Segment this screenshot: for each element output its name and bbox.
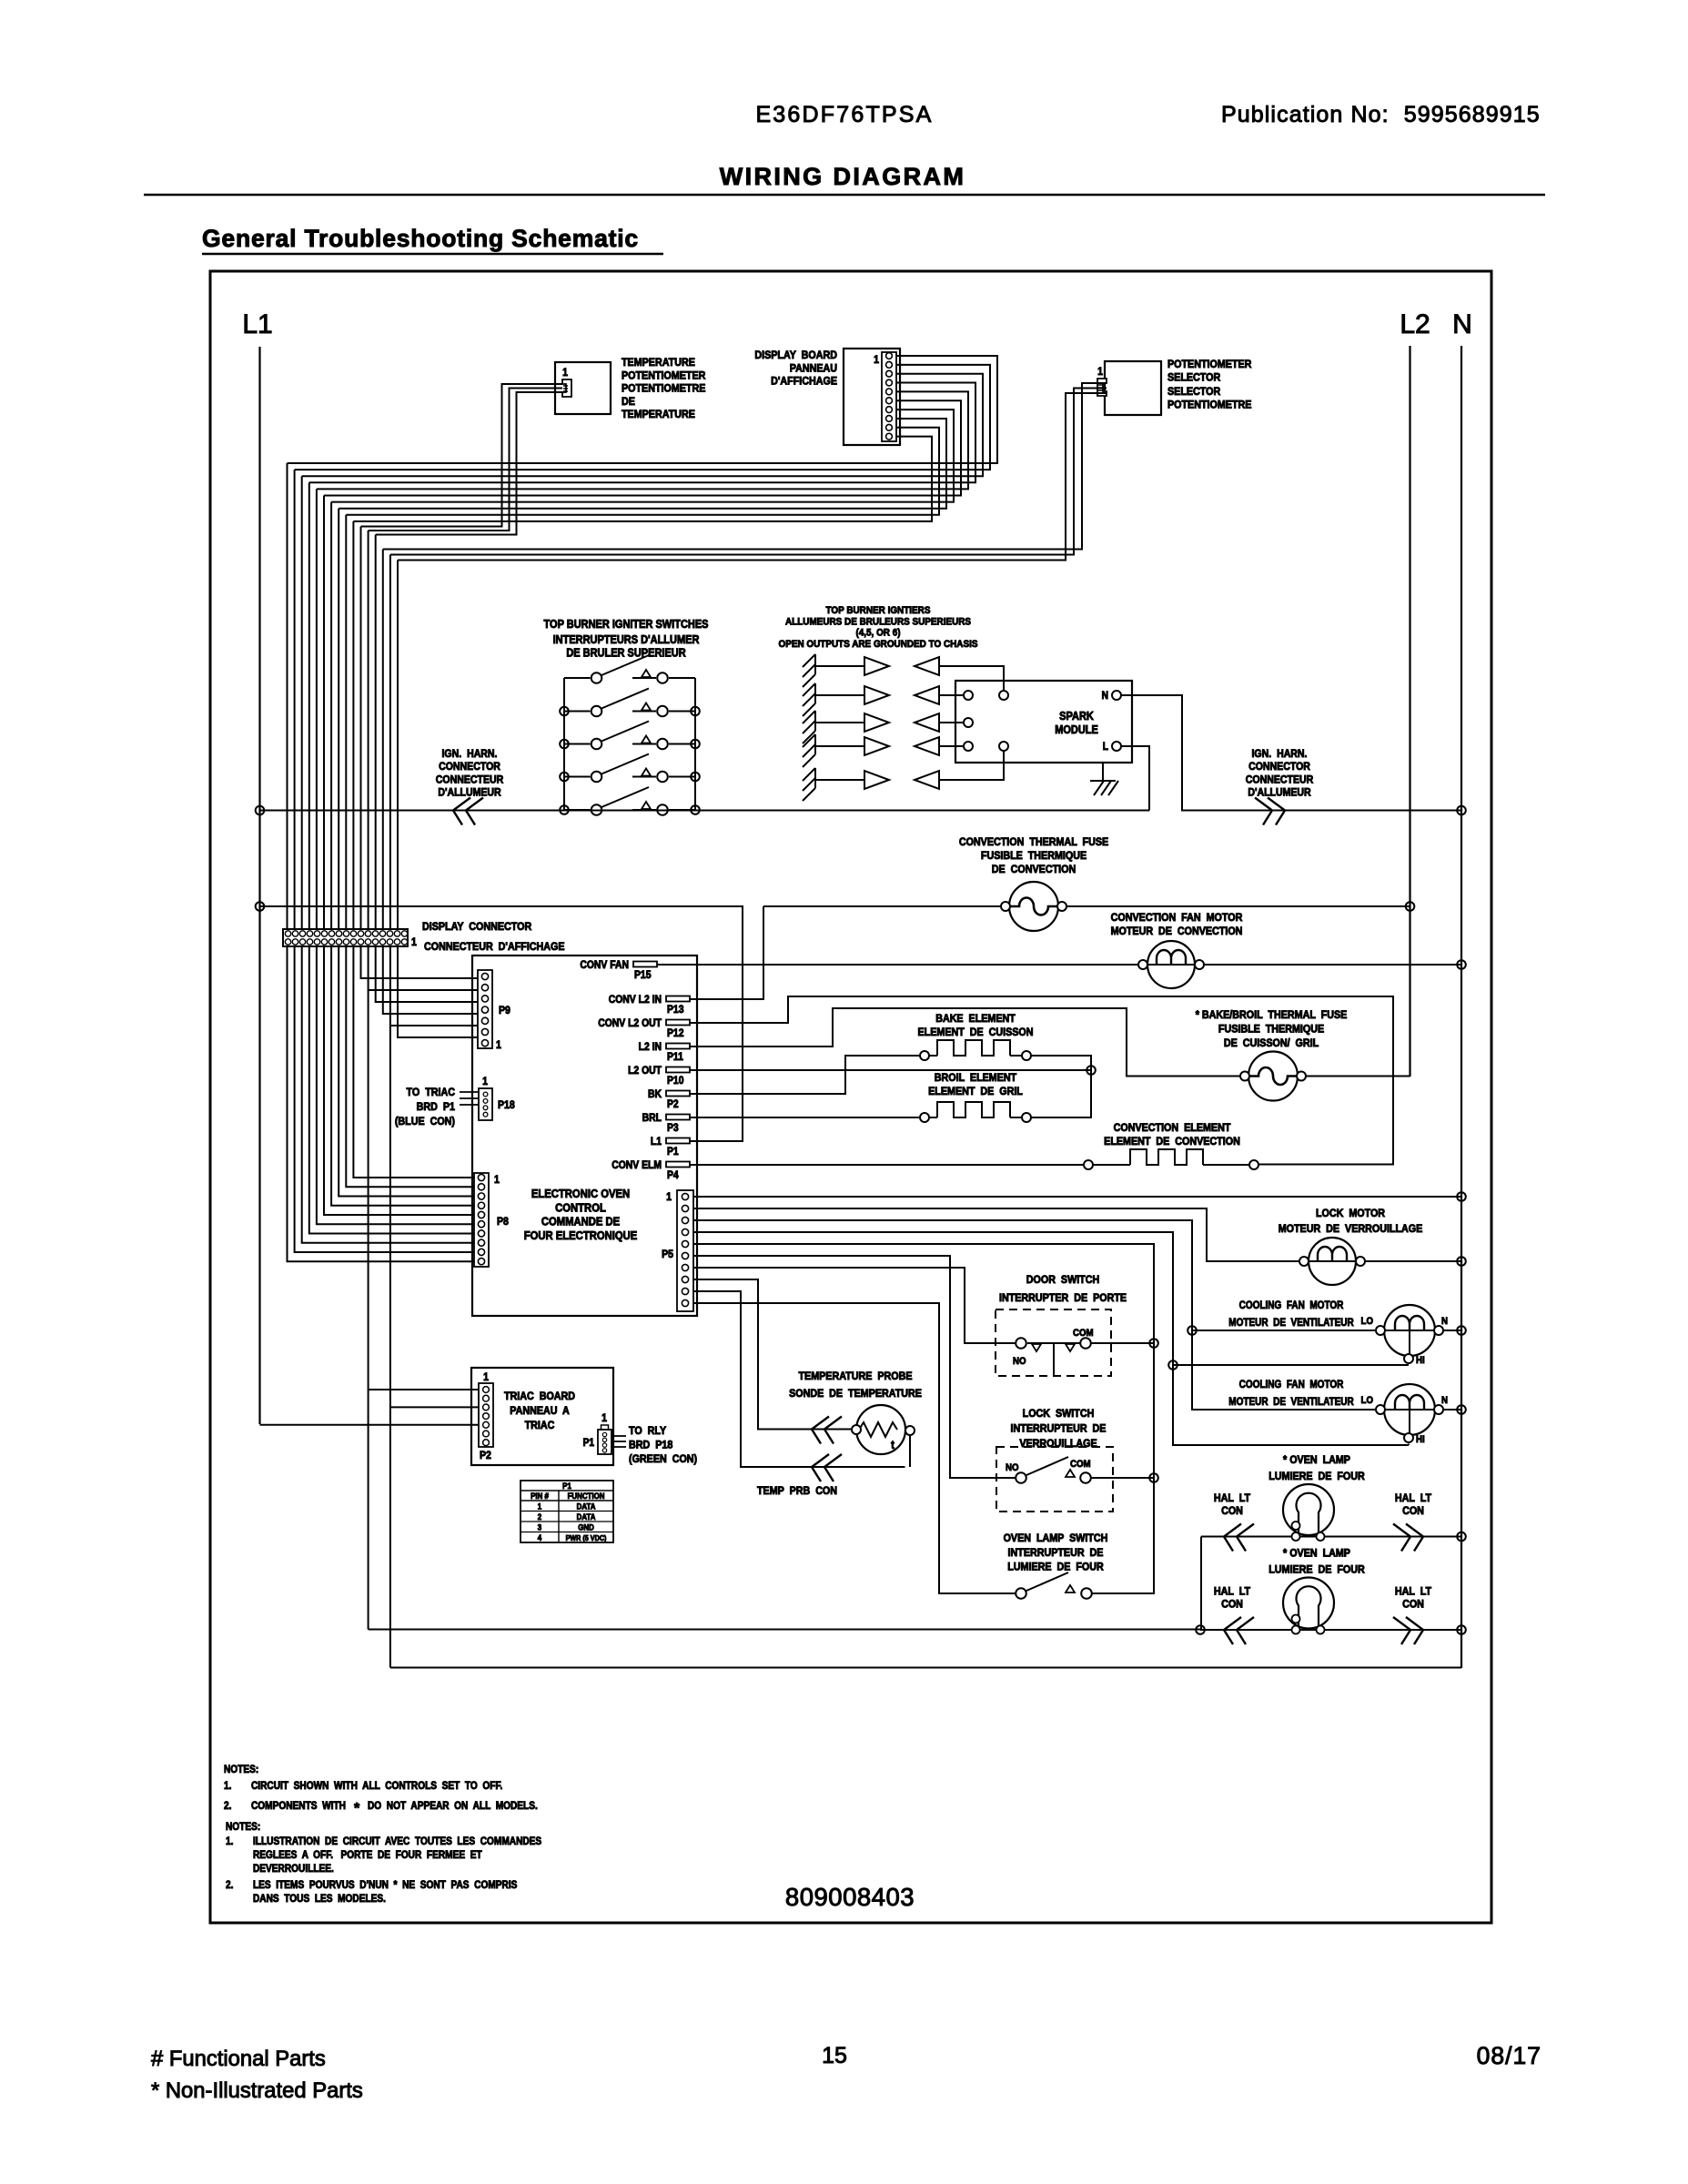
svg-text:* BAKE/BROIL THERMAL FUSE: * BAKE/BROIL THERMAL FUSE	[1196, 1009, 1348, 1021]
svg-text:FUNCTION: FUNCTION	[568, 1491, 605, 1501]
wire L1 to triac P2 pin5	[260, 1424, 480, 1426]
wire display harness line 5	[317, 391, 968, 489]
connector P9 pin 5	[481, 1017, 488, 1024]
svg-text:(4,5, OR 6): (4,5, OR 6)	[855, 627, 901, 639]
svg-text:P3: P3	[667, 1122, 679, 1134]
svg-text:1: 1	[411, 936, 417, 948]
svg-text:GND: GND	[578, 1522, 594, 1532]
top burner igniter 1	[803, 654, 815, 687]
wire N vertical	[1461, 346, 1462, 1668]
svg-text:DEVERROUILLEE.: DEVERROUILLEE.	[253, 1863, 334, 1875]
wire P3 BRL to broil element	[693, 1117, 919, 1118]
svg-text:t: t	[891, 1438, 895, 1451]
wire display harness line 6	[324, 400, 961, 495]
junction oven lamp 2 at neutral	[1457, 1625, 1466, 1634]
svg-text:2.: 2.	[226, 1879, 233, 1891]
svg-text:P9: P9	[499, 1005, 510, 1016]
svg-text:NO: NO	[1006, 1463, 1019, 1474]
svg-text:NOTES:: NOTES:	[224, 1764, 258, 1775]
svg-text:* Non-Illustrated Parts: * Non-Illustrated Parts	[151, 2078, 363, 2103]
display board pin 2	[886, 361, 893, 368]
display connector pin column 13	[372, 931, 378, 936]
EOC pin P15 CONV FAN	[633, 962, 657, 967]
svg-text:CONV L2 IN: CONV L2 IN	[609, 994, 662, 1006]
svg-text:ELECTRONIC OVEN: ELECTRONIC OVEN	[531, 1187, 630, 1200]
connector P5 pin 6	[682, 1252, 688, 1259]
triac P1 pin table	[521, 1481, 613, 1542]
svg-text:REGLEES A OFF. PORTE DE: REGLEES A OFF. PORTE DE FOUR FERMEE ET	[253, 1849, 482, 1861]
svg-text:CONNECTOR: CONNECTOR	[439, 762, 500, 773]
svg-text:ALLUMEURS DE BRULEURS SUPERIEU: ALLUMEURS DE BRULEURS SUPERIEURS	[785, 616, 971, 628]
connector P9 pin 6	[481, 1028, 488, 1035]
selector potentiometer pin 1 connector stub	[1097, 379, 1107, 396]
cooling fan motor 2	[1384, 1384, 1435, 1435]
connector P9 pin 3	[481, 996, 488, 1002]
wires to P18	[460, 1091, 479, 1093]
top burner igniter 3	[803, 711, 815, 743]
connector arrows oven lamp 1	[1224, 1524, 1254, 1552]
wire door switch COM out	[1092, 1342, 1155, 1344]
wire P5-6 to lock switch NO	[693, 1256, 1016, 1478]
junction convection fan motor at neutral	[1457, 960, 1466, 969]
junction lock switch COM	[1149, 1473, 1158, 1482]
display connector pin column 6	[321, 931, 327, 936]
electronic oven control box	[472, 955, 697, 1316]
display connector pin column 5	[314, 931, 319, 936]
connector P8 pin 4	[478, 1202, 484, 1208]
wire display harness line 3	[302, 374, 983, 477]
junction igniter harness at L1	[256, 806, 265, 815]
EOC pin P4 CONV ELM	[666, 1162, 690, 1168]
EOC pin P13 CONV L2 IN	[666, 996, 690, 1002]
connector P8 pin 6	[478, 1221, 484, 1228]
svg-text:DANS TOUS LES MODELES.: DANS TOUS LES MODELES.	[253, 1893, 386, 1905]
svg-text:08/17: 08/17	[1477, 2042, 1541, 2069]
wire oven lamp 1 to lamp 2 tie	[1200, 1537, 1202, 1631]
bake element	[930, 1055, 938, 1057]
svg-text:WIRING DIAGRAM: WIRING DIAGRAM	[720, 163, 966, 190]
wire display harness line 8	[339, 419, 946, 509]
svg-text:MOTEUR DE VENTILATEUR: MOTEUR DE VENTILATEUR	[1228, 1317, 1353, 1329]
svg-text:DISPLAY CONNECTOR: DISPLAY CONNECTOR	[422, 921, 532, 933]
display board pin 3	[886, 370, 893, 377]
display connector pin column 8	[336, 931, 341, 936]
svg-text:2: 2	[538, 1512, 542, 1522]
connector P5 pin 3	[682, 1217, 688, 1223]
svg-text:TOP BURNER IGNTIERS: TOP BURNER IGNTIERS	[826, 604, 931, 616]
wire display harness line 1	[288, 356, 998, 463]
svg-text:LES ITEMS POURVUS D'NUN *: LES ITEMS POURVUS D'NUN * NE SONT PAS CO…	[253, 1879, 517, 1891]
svg-text:CONNECTOR: CONNECTOR	[1248, 762, 1310, 773]
svg-text:CON: CON	[1221, 1599, 1243, 1611]
svg-text:CONV L2 OUT: CONV L2 OUT	[598, 1017, 662, 1029]
svg-text:CON: CON	[1221, 1505, 1243, 1517]
svg-text:FUSIBLE THERMIQUE: FUSIBLE THERMIQUE	[1218, 1024, 1325, 1036]
spark module input pins	[964, 691, 973, 700]
wire bundle to connector P8	[288, 946, 475, 1261]
svg-text:1: 1	[874, 354, 879, 366]
connector P2 strip	[479, 1383, 493, 1447]
door switch contacts	[1027, 1342, 1080, 1344]
svg-text:TEMPERATURE PROBE: TEMPERATURE PROBE	[799, 1370, 913, 1382]
svg-text:LUMIERE DE FOUR: LUMIERE DE FOUR	[1269, 1564, 1365, 1576]
svg-text:MODULE: MODULE	[1055, 723, 1098, 736]
igniter switch 4	[564, 776, 591, 778]
connector P18 strip	[479, 1088, 492, 1120]
wire display harness line 9	[346, 428, 939, 515]
wire spark module L drop	[1122, 746, 1150, 811]
EOC pin P10 L2 OUT	[666, 1067, 690, 1073]
wire P5-3 to cooling fans LO	[693, 1220, 1376, 1410]
svg-text:P13: P13	[667, 1004, 683, 1016]
svg-text:* OVEN LAMP: * OVEN LAMP	[1283, 1454, 1350, 1466]
svg-text:INTERRUPTEURS D'ALLUMER: INTERRUPTEURS D'ALLUMER	[553, 633, 700, 646]
svg-text:L: L	[1103, 741, 1109, 753]
wire P5-5 to door/lock switch COM chain	[693, 1244, 1154, 1593]
wire P5-4 to cooling fans HI	[693, 1232, 1409, 1445]
svg-text:HI: HI	[1416, 1356, 1425, 1367]
wire P4 CONV ELM to convection element	[693, 1164, 1083, 1166]
svg-text:BROIL ELEMENT: BROIL ELEMENT	[935, 1072, 1016, 1084]
svg-text:1: 1	[494, 1174, 500, 1186]
connector P8 pin 8	[478, 1239, 484, 1246]
wire P10 L2 OUT	[693, 1069, 1091, 1071]
svg-text:BK: BK	[648, 1088, 662, 1100]
convection thermal fuse	[1009, 882, 1058, 931]
svg-text:CONV FAN: CONV FAN	[580, 959, 629, 971]
connector P8 strip	[474, 1173, 489, 1267]
wire triac P2 pin3 feed	[390, 1406, 479, 1408]
connector P5 pin 9	[682, 1288, 688, 1294]
svg-text:1: 1	[538, 1501, 542, 1512]
svg-text:4: 4	[538, 1533, 542, 1543]
svg-text:LUMIERE DE FOUR: LUMIERE DE FOUR	[1269, 1471, 1365, 1482]
display connector pin column 2	[292, 931, 298, 936]
svg-text:TO TRIAC: TO TRIAC	[407, 1087, 455, 1098]
display connector pin column 15	[387, 931, 392, 936]
junction door switch COM	[1149, 1339, 1158, 1348]
wire L1 vertical	[258, 347, 260, 1424]
EOC pin P1 L1	[666, 1138, 690, 1144]
connector P8 pin 1	[478, 1174, 484, 1180]
svg-text:1: 1	[562, 367, 568, 379]
svg-text:TRIAC: TRIAC	[525, 1420, 555, 1431]
svg-text:HAL LT: HAL LT	[1395, 1492, 1431, 1504]
wire oven lamp feed line	[369, 1629, 1200, 1631]
svg-text:CONVECTION FAN MOTOR: CONVECTION FAN MOTOR	[1111, 912, 1243, 924]
svg-text:2.: 2.	[224, 1800, 231, 1812]
connector P5 pin 8	[682, 1276, 688, 1282]
junction L1 feed	[256, 902, 265, 911]
svg-text:COMPONENTS WITH: COMPONENTS WITH	[251, 1800, 346, 1812]
igniter switch 2	[564, 711, 591, 713]
display connector pin column 17	[401, 931, 407, 936]
wire L2 through convection thermal fuse to P13	[693, 906, 763, 999]
connector P9 pin 2	[481, 985, 488, 991]
svg-text:COM: COM	[1073, 1329, 1094, 1340]
svg-text:P18: P18	[498, 1099, 515, 1111]
svg-text:COOLING FAN MOTOR: COOLING FAN MOTOR	[1239, 1379, 1344, 1390]
svg-text:NO: NO	[1013, 1357, 1026, 1368]
svg-text:IGN. HARN.: IGN. HARN.	[442, 748, 498, 760]
svg-text:(BLUE CON): (BLUE CON)	[395, 1116, 455, 1127]
door switch dashed box	[996, 1309, 1111, 1376]
potentiometer selector box	[1105, 361, 1161, 415]
svg-text:TOP BURNER IGNITER SWITCHES: TOP BURNER IGNITER SWITCHES	[544, 618, 709, 631]
svg-text:P1: P1	[562, 1481, 571, 1491]
wire P5-7 to door switch	[693, 1268, 1016, 1343]
svg-text:P4: P4	[667, 1169, 679, 1181]
connector P8 pin 10	[478, 1259, 484, 1265]
svg-text:MOTEUR DE VENTILATEUR: MOTEUR DE VENTILATEUR	[1228, 1396, 1353, 1408]
oven lamp 1	[1283, 1484, 1334, 1535]
wire P5-9 temperature probe return	[693, 1291, 905, 1467]
svg-text:ILLUSTRATION DE CIRCUIT AVE: ILLUSTRATION DE CIRCUIT AVEC TOUTES LES …	[253, 1835, 541, 1847]
svg-text:*: *	[354, 1801, 360, 1816]
svg-text:1.: 1.	[226, 1835, 233, 1847]
junction spark N at neutral rail	[1457, 806, 1466, 815]
igniter switch 3	[564, 743, 591, 745]
wire P2 BK to bake element	[693, 1056, 919, 1094]
svg-text:P2: P2	[480, 1450, 491, 1461]
display connector body	[283, 929, 408, 946]
svg-text:N: N	[1452, 309, 1472, 339]
svg-text:Publication No: 5995689915: Publication No: 5995689915	[1221, 102, 1541, 127]
svg-text:IGN. HARN.: IGN. HARN.	[1252, 748, 1308, 760]
connector arrow << on probe return	[812, 1454, 842, 1481]
oven lamp 1 line	[1201, 1536, 1461, 1538]
top burner igniter 5	[803, 768, 815, 801]
wire temperature potentiometer lead 1	[361, 384, 563, 527]
svg-text:POTENTIOMETER: POTENTIOMETER	[622, 370, 706, 382]
svg-text:POTENTIOMETRE: POTENTIOMETRE	[622, 383, 706, 395]
spark module pin N	[1112, 691, 1121, 700]
wire probe right terminal drop	[909, 1436, 911, 1468]
display connector pin column 12	[365, 931, 370, 936]
wire L1 to electronic oven control P1	[260, 906, 743, 1141]
svg-text:N: N	[1102, 690, 1108, 702]
svg-text:1: 1	[483, 1371, 489, 1383]
svg-text:P10: P10	[667, 1075, 683, 1087]
svg-text:* OVEN LAMP: * OVEN LAMP	[1283, 1548, 1350, 1560]
display connector pin column 7	[329, 931, 334, 936]
convection element	[1094, 1164, 1131, 1166]
svg-text:LUMIERE DE FOUR: LUMIERE DE FOUR	[1007, 1562, 1104, 1573]
display board pin 9	[886, 424, 893, 430]
junction cooling fan motor 2 at neutral	[1457, 1405, 1466, 1414]
display connector pin column 1	[285, 931, 290, 936]
connector P8 pin 7	[478, 1230, 484, 1237]
wire bundle to connector P9	[361, 946, 479, 978]
connector P5 pin 7	[682, 1264, 688, 1270]
svg-text:TEMPERATURE: TEMPERATURE	[622, 357, 695, 369]
svg-text:BRL: BRL	[642, 1112, 662, 1124]
connector P8 pin 5	[478, 1211, 484, 1218]
display board pin 1	[886, 353, 893, 359]
svg-text:DOOR SWITCH: DOOR SWITCH	[1026, 1274, 1099, 1286]
svg-text:L2: L2	[1400, 309, 1430, 339]
EOC pin P12 CONV L2 OUT	[666, 1020, 690, 1026]
svg-text:P12: P12	[667, 1027, 683, 1039]
svg-text:COM: COM	[1070, 1460, 1091, 1471]
svg-text:DE CONVECTION: DE CONVECTION	[992, 864, 1076, 875]
svg-text:HAL LT: HAL LT	[1395, 1586, 1431, 1598]
svg-text:P2: P2	[667, 1098, 679, 1110]
svg-text:CONVECTION ELEMENT: CONVECTION ELEMENT	[1114, 1122, 1231, 1134]
svg-text:P1: P1	[667, 1146, 679, 1158]
svg-text:PANNEAU A: PANNEAU A	[510, 1405, 570, 1417]
junction oven lamp feed	[1196, 1625, 1205, 1634]
svg-text:HAL LT: HAL LT	[1214, 1492, 1250, 1504]
wire selector potentiometer lead 2	[390, 389, 1107, 555]
spark module pin L	[1112, 742, 1121, 751]
wire cooling fan motor 2 to neutral	[1444, 1409, 1462, 1410]
connector P8 pin 9	[478, 1249, 484, 1255]
wire lock motor to neutral	[1366, 1260, 1462, 1262]
igniter switch left bus	[563, 678, 565, 810]
wire spark module N to neutral	[1122, 695, 1462, 811]
svg-text:COOLING FAN MOTOR: COOLING FAN MOTOR	[1239, 1299, 1344, 1311]
display board pin strip	[882, 352, 896, 441]
display board pin 6	[886, 398, 893, 404]
wire P12 to convection element right	[693, 996, 1393, 1165]
junction fan1 LO	[1188, 1326, 1197, 1335]
triac board box	[471, 1368, 613, 1465]
oven lamp 2	[1283, 1578, 1334, 1629]
wire temperature potentiometer lead 3	[376, 392, 562, 535]
header rule	[144, 194, 1545, 197]
convection fan motor	[1147, 941, 1195, 988]
svg-text:CON: CON	[1402, 1505, 1424, 1517]
display connector pin column 16	[394, 931, 399, 936]
wires P1 stubs	[612, 1435, 626, 1437]
svg-text:TEMP PRB CON: TEMP PRB CON	[757, 1485, 837, 1497]
svg-text:PWR (5 VDC): PWR (5 VDC)	[566, 1534, 607, 1543]
schematic border frame	[210, 271, 1491, 1923]
connector P5 pin 2	[682, 1205, 688, 1211]
svg-text:DATA: DATA	[577, 1512, 596, 1522]
svg-text:INTERRUPTER DE PORTE: INTERRUPTER DE PORTE	[999, 1292, 1127, 1304]
svg-text:HI: HI	[1416, 1435, 1425, 1446]
wire triac board feed B (to neutral bottom line)	[389, 1026, 391, 1668]
svg-text:BRD P1: BRD P1	[417, 1101, 456, 1113]
svg-text:SPARK: SPARK	[1059, 710, 1094, 723]
svg-text:3: 3	[538, 1522, 542, 1532]
svg-text:CIRCUIT SHOWN WITH ALL CON: CIRCUIT SHOWN WITH ALL CONTROLS SET TO O…	[251, 1780, 502, 1792]
connector P5 pin 4	[682, 1228, 688, 1235]
svg-text:ELEMENT DE CUISSON: ELEMENT DE CUISSON	[918, 1026, 1034, 1038]
display board pin 7	[886, 407, 893, 413]
svg-text:OVEN LAMP SWITCH: OVEN LAMP SWITCH	[1004, 1532, 1108, 1544]
svg-text:N: N	[1441, 1396, 1448, 1407]
junction fan1 HI	[1168, 1360, 1178, 1370]
svg-text:FOUR ELECTRONIQUE: FOUR ELECTRONIQUE	[524, 1228, 637, 1242]
EOC pin P11 L2 IN	[666, 1044, 690, 1049]
wire L2 vertical	[1409, 346, 1410, 1077]
svg-text:CONV ELM: CONV ELM	[612, 1159, 662, 1171]
wire P5-2 to lock motor	[693, 1208, 1299, 1261]
display connector pin column 14	[379, 931, 385, 936]
junction P5-1 at neutral	[1457, 1192, 1466, 1201]
display connector pin column 11	[358, 931, 363, 936]
display board box	[844, 349, 900, 445]
svg-text:LO: LO	[1361, 1396, 1373, 1407]
svg-text:OPEN OUTPUTS ARE GROUNDED TO C: OPEN OUTPUTS ARE GROUNDED TO CHASIS	[779, 638, 978, 650]
wire P15 to convection fan motor to neutral	[697, 964, 1461, 966]
svg-text:LOCK MOTOR: LOCK MOTOR	[1316, 1208, 1386, 1219]
wire triac board feed A (to oven lamps line)	[368, 990, 369, 1630]
wire P11 to bake broil thermal fuse to L2	[693, 1008, 1239, 1077]
svg-text:COMMANDE DE: COMMANDE DE	[541, 1215, 620, 1228]
connector arrow << on probe lead	[812, 1417, 842, 1444]
oven lamp switch contacts	[1016, 1588, 1026, 1599]
svg-text:P5: P5	[662, 1249, 673, 1260]
svg-text:BAKE ELEMENT: BAKE ELEMENT	[935, 1013, 1016, 1025]
svg-text:P8: P8	[497, 1216, 509, 1228]
temperature probe	[856, 1405, 905, 1454]
display board pin 4	[886, 379, 893, 386]
lock switch contacts	[1016, 1472, 1026, 1483]
svg-text:VERROUILLAGE: VERROUILLAGE	[1019, 1438, 1097, 1450]
connector P1 triac	[598, 1430, 612, 1454]
broil element	[930, 1117, 938, 1118]
svg-text:1: 1	[1097, 366, 1103, 378]
EOC pin P3 BRL	[666, 1115, 690, 1120]
wire display harness line 2	[295, 365, 990, 470]
svg-text:1: 1	[666, 1191, 672, 1203]
svg-text:P15: P15	[634, 969, 651, 981]
svg-text:DISPLAY BOARD: DISPLAY BOARD	[754, 349, 837, 361]
svg-text:INTERRUPTEUR DE: INTERRUPTEUR DE	[1011, 1423, 1107, 1435]
svg-text:L1: L1	[242, 309, 272, 339]
wire display harness line 7	[331, 409, 954, 501]
wire neutral bottom line	[390, 1667, 1461, 1669]
svg-text:CONVECTION THERMAL FUSE: CONVECTION THERMAL FUSE	[959, 836, 1109, 848]
svg-text:DE BRULER SUPERIEUR: DE BRULER SUPERIEUR	[566, 647, 686, 660]
svg-text:ELEMENT DE GRIL: ELEMENT DE GRIL	[928, 1086, 1023, 1097]
svg-text:LOCK SWITCH: LOCK SWITCH	[1023, 1408, 1095, 1420]
svg-text:CONNECTEUR D'AFFICHAGE: CONNECTEUR D'AFFICHAGE	[424, 941, 565, 953]
connector P5 pin 10	[682, 1299, 688, 1306]
wire display harness line 4	[309, 383, 975, 483]
temperature potentiometer box	[555, 362, 611, 414]
svg-text:CONNECTEUR: CONNECTEUR	[436, 774, 503, 786]
display board pin 10	[886, 433, 893, 440]
lock switch dashed box	[996, 1447, 1113, 1512]
temperature potentiometer pin 1 connector stub	[562, 379, 571, 397]
connector P9 pin 4	[481, 1006, 488, 1013]
svg-text:DE CUISSON/ GRIL: DE CUISSON/ GRIL	[1224, 1037, 1319, 1049]
svg-text:# Functional Parts: # Functional Parts	[151, 2047, 326, 2071]
svg-text:D'AFFICHAGE: D'AFFICHAGE	[771, 376, 837, 388]
svg-text:ELEMENT DE CONVECTION: ELEMENT DE CONVECTION	[1104, 1136, 1240, 1148]
svg-text:1.: 1.	[224, 1780, 231, 1792]
connector arrows oven lamp 2	[1224, 1617, 1254, 1644]
wire temperature potentiometer lead 2	[369, 389, 562, 531]
spark module box	[955, 681, 1132, 763]
svg-text:MOTEUR DE VERROUILLAGE: MOTEUR DE VERROUILLAGE	[1279, 1223, 1423, 1235]
top burner igniter 4	[803, 734, 815, 767]
svg-text:L2 OUT: L2 OUT	[628, 1065, 662, 1077]
svg-text:TO RLY: TO RLY	[629, 1425, 666, 1437]
wire selector potentiometer lead 3	[398, 393, 1107, 561]
junction L2 OUT at bake broil tie	[1087, 1066, 1096, 1075]
svg-text:PIN #: PIN #	[531, 1491, 549, 1501]
svg-text:CON: CON	[1402, 1599, 1424, 1611]
connector P8 pin 2	[478, 1184, 484, 1190]
top burner igniter 2	[803, 683, 815, 716]
svg-text:1: 1	[601, 1412, 607, 1424]
